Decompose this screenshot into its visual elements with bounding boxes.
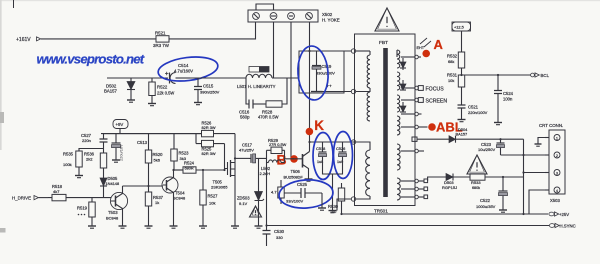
svg-text:68k: 68k (448, 59, 454, 64)
svg-text:33n/100V: 33n/100V (286, 199, 303, 204)
resistor R522 22k 0.5W (149, 78, 175, 99)
svg-text:BC848: BC848 (106, 216, 119, 221)
scan mark bottom-left (0, 228, 6, 233)
svg-text:C518: C518 (316, 146, 325, 151)
svg-text:TR501: TR501 (374, 209, 388, 214)
wire split to R529 and L502 (266, 150, 268, 162)
warning triangle above FBT (375, 8, 399, 31)
connector X502 pin 3 (288, 13, 295, 20)
junction dot R530 rail (340, 213, 342, 215)
svg-text:220u/16V: 220u/16V (119, 144, 124, 161)
svg-text:1000u/35V: 1000u/35V (476, 204, 496, 209)
TR501 pin right 189 (401, 187, 428, 191)
svg-text:1u0: 1u0 (337, 160, 343, 164)
svg-text:1: 1 (556, 136, 558, 140)
svg-text:C530: C530 (274, 229, 285, 234)
wire H line left segment (107, 77, 168, 79)
FBT HV winding upper (397, 50, 400, 68)
svg-text:1k0: 1k0 (330, 209, 337, 214)
svg-text:470R 0.5W: 470R 0.5W (258, 115, 279, 120)
svg-text:82R 3W: 82R 3W (202, 125, 216, 130)
ground at TR501 left pin (337, 199, 351, 211)
svg-text:C515: C515 (203, 84, 214, 89)
svg-text:CRT CONN.: CRT CONN. (539, 123, 563, 128)
svg-text:220n: 220n (82, 138, 91, 143)
wire bias branch left (79, 148, 104, 150)
wire R521 to yoke pin1 (169, 22, 256, 39)
vertical bus right (523, 139, 525, 214)
capacitor C527 220n (81, 133, 108, 147)
red dot B (290, 155, 298, 163)
resistor R518 4k7 (48, 184, 111, 201)
resistor R527 10k (200, 169, 218, 221)
capacitor C526 (336, 142, 347, 168)
diode D502 BA157 (104, 78, 135, 95)
resistor R523 3k3 (171, 134, 189, 170)
svg-text:R522: R522 (157, 85, 168, 90)
flyback transformer FBT body (355, 34, 416, 206)
scan edge artifact top (0, 0, 600, 1)
svg-text:680R: 680R (185, 166, 194, 170)
svg-text:R523: R523 (179, 151, 190, 156)
junction dot bus rail (522, 213, 524, 215)
resistor R532 (447, 52, 465, 75)
resistor R529 27R 0.5W (267, 138, 287, 154)
capacitor C522 1000u/35V (476, 177, 508, 209)
lightning mark at EHT (420, 38, 431, 47)
svg-text:T503: T503 (108, 210, 118, 215)
wire damper branch down (246, 78, 249, 104)
ground below ZD503 (255, 221, 263, 228)
resistor R537 1k (145, 186, 163, 221)
junction dot C530 (265, 224, 267, 226)
svg-text:C521: C521 (468, 105, 479, 110)
wire +161V to R521 (41, 38, 156, 40)
svg-text:9.1V: 9.1V (239, 201, 248, 206)
wire C523 to CRT pin2 (501, 154, 546, 156)
svg-text:4.7u/160V: 4.7u/160V (174, 68, 193, 73)
wire H.SYNC rail (267, 225, 550, 227)
wire C514 to linearity coil (190, 77, 246, 79)
capacitor C525 33n/100V (284, 182, 322, 204)
resistor R536 2k2 (84, 147, 107, 171)
wire T505 source down (234, 176, 236, 222)
wire T505 to C517 (235, 157, 249, 159)
resistor R521 (153, 31, 170, 49)
ground below T504 (170, 221, 178, 228)
junction dot at yoke pin4 node (308, 50, 310, 52)
capacitor C521 220n/100V (458, 104, 488, 116)
svg-text:H_DRIVE: H_DRIVE (12, 195, 31, 200)
resistor R524 680R (174, 161, 196, 174)
svg-text:+12.5: +12.5 (454, 25, 464, 30)
junction base node (291, 158, 294, 160)
capacitor C518 (316, 142, 327, 168)
connector X502 body (248, 10, 318, 22)
warning triangle small (250, 206, 262, 217)
junction dot C524 (497, 74, 499, 76)
TR501 secondary right lower (397, 178, 400, 200)
FBT HV diode 2 (400, 80, 406, 90)
snubber box outline (299, 51, 344, 93)
diode D504 BA157 (449, 127, 468, 143)
svg-text:EHT: EHT (417, 46, 425, 50)
resistor R538 4.7 (271, 180, 284, 204)
ground below R519 (88, 221, 96, 228)
connector X502 label (322, 12, 340, 23)
FBT pin left tap (351, 88, 370, 94)
svg-text:C522: C522 (480, 198, 491, 203)
wire pin4 to +25V rail (529, 190, 545, 214)
svg-text:2SK3065: 2SK3065 (211, 184, 228, 189)
svg-text:100n: 100n (503, 97, 513, 102)
svg-text:10k: 10k (448, 78, 454, 83)
svg-text:T506: T506 (291, 169, 301, 174)
resistor R520 5k6 (145, 134, 163, 170)
svg-text:3: 3 (556, 171, 558, 175)
node BCL output terminal (531, 73, 550, 78)
svg-text:4.7: 4.7 (271, 190, 277, 195)
capacitor C519 330u/200V (311, 51, 335, 92)
wire yoke pin4 down (HOT collector net) (309, 22, 311, 152)
pin D504 feed (412, 137, 449, 141)
wire +9V to rail (119, 129, 121, 134)
svg-text:BC848: BC848 (173, 196, 186, 201)
scan mark left-mid (0, 112, 4, 123)
svg-text:10u/250V: 10u/250V (478, 147, 495, 152)
node H.SYNC output terminal (549, 223, 575, 228)
svg-text:330u/200V: 330u/200V (316, 71, 335, 76)
TR501 pin right 151 (401, 149, 424, 153)
node +12.5V supply (452, 22, 471, 31)
svg-text:R535: R535 (63, 152, 74, 157)
FBT primary winding upper (367, 51, 370, 88)
capacitor C530 330 (263, 226, 285, 247)
wire D504 to C523 node (458, 138, 524, 140)
resistor R530 (328, 183, 345, 214)
red letter A (434, 37, 444, 52)
svg-text:2: 2 (556, 154, 558, 158)
wire damper branch up (282, 78, 287, 104)
connector X502 pin 2 (270, 13, 277, 20)
FBT pin aux (401, 112, 422, 116)
svg-text:1N4148: 1N4148 (106, 181, 120, 186)
wire R523 to gate row (174, 169, 183, 171)
FBT pin ABL (401, 125, 428, 129)
svg-text:ZD503: ZD503 (237, 196, 250, 201)
ground below snubber caps (329, 208, 337, 213)
svg-text:27R 0.5W: 27R 0.5W (269, 142, 287, 147)
scan edge artifact left (0, 0, 2, 150)
resistor R533 (457, 174, 524, 190)
ground below T505 source (231, 221, 239, 228)
junction dot C523 top (499, 138, 501, 140)
FBT pin left top (351, 49, 370, 53)
svg-text:BA157: BA157 (104, 89, 118, 94)
wire yoke pin2 down to linearity node (273, 22, 275, 78)
node H_DRIVE input terminal (12, 195, 48, 200)
diode D503 RGP15J (442, 174, 457, 191)
capacitor C524 100n (494, 75, 514, 120)
TR501 secondary right upper (397, 144, 400, 170)
connector X502 pin 1 (253, 13, 260, 20)
junction dot pin3 bus (522, 171, 524, 173)
svg-text:47u/25V: 47u/25V (239, 148, 254, 153)
svg-text:22k 0.5W: 22k 0.5W (157, 91, 174, 96)
transistor T504 BC848 (162, 170, 186, 221)
svg-text:5k6: 5k6 (154, 158, 161, 163)
junction dot C522 top (502, 176, 504, 178)
svg-text:SCREEN: SCREEN (426, 99, 448, 105)
wire collector node to caps rail (310, 141, 355, 143)
svg-text:390n/250V: 390n/250V (200, 90, 220, 95)
capacitor C515 390n/250V (194, 78, 220, 98)
wire yoke pin1-pin2 bridge (256, 4, 274, 10)
wire yoke pin3 down (290, 22, 292, 159)
svg-text:1u8: 1u8 (317, 160, 323, 164)
svg-text:RGP15J: RGP15J (442, 185, 457, 190)
svg-text:R527: R527 (208, 194, 219, 199)
svg-text:A: A (434, 37, 444, 52)
wire yoke pin4 node to FBT pin (310, 50, 352, 52)
svg-text:1k: 1k (155, 200, 159, 205)
resistor R526 82R 3W (101, 121, 235, 137)
ground below D502 (127, 95, 135, 102)
ellipse annotation around C526 (334, 132, 353, 179)
connector X503 pin 4 (545, 187, 560, 193)
svg-text:BA157: BA157 (456, 132, 468, 137)
ground below C513 (112, 156, 120, 162)
FBT pin EHT (401, 55, 421, 59)
junction dot T504 collector (172, 169, 174, 171)
svg-text:220n/100V: 220n/100V (468, 110, 488, 115)
ground below C522 (499, 206, 507, 212)
svg-text:R533: R533 (471, 180, 481, 185)
connector X503 pin 3 (545, 170, 560, 176)
wire pin3 to bus (524, 172, 546, 174)
red letter B (277, 152, 287, 168)
ellipse annotation around C519 (296, 45, 330, 101)
svg-text:K: K (314, 118, 324, 133)
FBT pin SCREEN (401, 98, 447, 105)
ground below T506 emitter (305, 176, 313, 181)
TR501 pin right 181 (401, 179, 428, 183)
TR501 pin right 197 (401, 195, 428, 199)
connector X502 pin 4 (306, 13, 313, 20)
red letters ABL (436, 120, 463, 135)
red dot A (422, 50, 430, 58)
svg-text:C513: C513 (137, 140, 148, 145)
wire BCL (462, 74, 532, 76)
svg-text:BU2508DF: BU2508DF (284, 175, 304, 180)
inductor L502 2.2uH (260, 160, 285, 176)
svg-text:C526: C526 (336, 146, 345, 151)
svg-text:3R3 7W: 3R3 7W (153, 43, 170, 48)
wire R526 down to drive node (234, 134, 236, 160)
capacitor C514 4.7u/160V (165, 63, 193, 83)
junction dot R520 node (147, 185, 149, 187)
svg-text:680k: 680k (472, 186, 480, 190)
ground below R535 (75, 172, 83, 178)
svg-text:C524: C524 (503, 91, 514, 96)
connector X503 pin 1 (545, 135, 560, 141)
transistor T503 BC848 (106, 186, 128, 221)
inductor L501 H. LINEARITY (237, 74, 276, 89)
svg-text:2.2uH: 2.2uH (260, 171, 271, 176)
ground at CRT pin1 (535, 141, 542, 146)
svg-text:4: 4 (556, 189, 558, 193)
svg-text:R532: R532 (447, 54, 458, 59)
capacitor C517 47u/25V (239, 143, 267, 163)
ellipse annotation around C514 (157, 54, 219, 84)
connector X503 pin 2 (545, 152, 560, 158)
FBT pin FOCUS (401, 86, 444, 93)
svg-text:560p: 560p (240, 115, 250, 120)
node +25V output terminal (549, 212, 569, 217)
ellipse annotation around C518 (313, 133, 333, 180)
watermark www.vseprosto.net (37, 52, 145, 67)
red letter K (314, 118, 324, 133)
wire linearity coil to snubber box (272, 77, 299, 79)
junction dot R532/R531 (460, 74, 462, 76)
wire R520 to node (148, 170, 150, 186)
wire gate (196, 169, 226, 171)
ground below R527 (199, 221, 207, 228)
junction dot collector rail (308, 141, 310, 143)
svg-text:82R 3W: 82R 3W (202, 151, 216, 156)
FBT primary winding lower (367, 92, 370, 121)
red dot ABL (428, 123, 436, 131)
capacitor C516 560p (239, 100, 266, 120)
wire +25V rail (342, 213, 549, 215)
capacitor C513 220u/16V (112, 134, 148, 161)
svg-text:+161V: +161V (16, 37, 31, 43)
wire +12.5V to R532 (461, 31, 463, 52)
svg-text:H.SYNC: H.SYNC (560, 224, 576, 229)
FBT HV winding low (397, 116, 400, 135)
transistor T506 BU2508DF (284, 152, 310, 180)
svg-text:R524: R524 (184, 161, 195, 166)
svg-text:10k: 10k (209, 201, 215, 206)
TR501 secondary winding left (356, 150, 370, 199)
wire cap bottoms (323, 168, 343, 208)
wire to C530 node (266, 163, 268, 226)
svg-text:X502: X502 (322, 12, 333, 17)
svg-text:X503: X503 (550, 198, 560, 203)
transistor T505 2SK3065 (211, 158, 235, 189)
ellipse annotation around C525 (278, 178, 334, 210)
svg-text:100k: 100k (63, 162, 72, 167)
resistor R531 10k (447, 73, 465, 105)
ground below R522 (148, 99, 156, 106)
svg-text:4k7: 4k7 (53, 189, 60, 194)
red dot K (306, 128, 314, 136)
wire T503 collector to T504 base (123, 185, 164, 187)
wire C519 bottom to FBT pin (317, 91, 352, 93)
warning triangle above R533 (467, 155, 487, 174)
zener diode ZD503 9.1V (237, 158, 264, 221)
resistor R519 (77, 198, 95, 221)
wire drive to base B (285, 150, 295, 162)
svg-text:2k2: 2k2 (86, 157, 93, 162)
svg-text:+9V: +9V (116, 122, 124, 127)
diode D505 1N4148 (100, 171, 119, 198)
FBT HV winding mid1 (397, 72, 400, 90)
svg-text:C525: C525 (297, 182, 308, 187)
resistor R525 82R 3W (196, 134, 225, 170)
wire +9V rail (104, 133, 202, 135)
label EHT (417, 46, 425, 50)
svg-text:FBT: FBT (379, 40, 388, 46)
junction dot bus-BA157 (522, 154, 524, 156)
svg-text:R521: R521 (155, 31, 166, 36)
node +9V supply (113, 120, 128, 129)
FBT core (383, 48, 388, 197)
svg-text:www.vseprosto.net: www.vseprosto.net (37, 52, 145, 67)
svg-text:330: 330 (276, 235, 283, 240)
wire pin1 to ground (538, 138, 545, 142)
ground below T503 (119, 221, 127, 228)
svg-text:H. YOKE: H. YOKE (322, 18, 340, 23)
svg-text:L501 H. LINEARITY: L501 H. LINEARITY (237, 84, 276, 89)
capacitor C523 10u/250V (478, 139, 505, 155)
svg-text:BCL: BCL (541, 73, 550, 78)
wire TR501 pins to D503 (428, 177, 443, 181)
resistor R535 100k (63, 148, 82, 172)
scan mark top-left (13, 0, 15, 8)
connector X503 body (539, 123, 565, 203)
FBT pin left lower (351, 140, 370, 150)
FBT HV diode 1 (400, 58, 406, 70)
ground below R537 (145, 221, 153, 228)
FBT HV diode 3 (400, 102, 406, 112)
ground below C525 (318, 193, 326, 210)
transformer TR501 label (374, 209, 388, 214)
svg-text:R520: R520 (153, 152, 164, 157)
ground below C521 (458, 116, 466, 122)
svg-text:R519: R519 (77, 206, 88, 211)
TR501 pin left bottom (351, 197, 355, 201)
slug adjust mark above L501 (249, 67, 269, 73)
FBT HV winding mid2 (397, 95, 400, 112)
resistor R528 470R 0.5W (258, 101, 282, 120)
ground below C524 (494, 120, 502, 125)
svg-text:FOCUS: FOCUS (426, 87, 445, 93)
svg-text:+25V: +25V (559, 212, 569, 217)
svg-text:R531: R531 (447, 73, 458, 78)
ground below C515 (194, 98, 202, 105)
node +161V input terminal (16, 37, 41, 43)
